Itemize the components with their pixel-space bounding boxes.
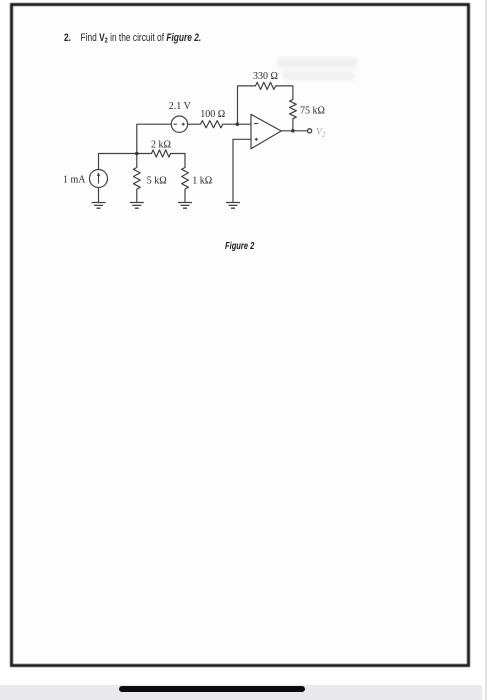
svg-text:2 kΩ: 2 kΩ [151, 140, 171, 151]
svg-text:75 kΩ: 75 kΩ [300, 105, 325, 116]
svg-text:1 mA: 1 mA [63, 175, 86, 186]
svg-text:1 kΩ: 1 kΩ [192, 176, 212, 187]
svg-text:V2: V2 [316, 127, 326, 138]
svg-text:100 Ω: 100 Ω [200, 109, 225, 120]
svg-text:330 Ω: 330 Ω [253, 71, 278, 82]
svg-text:2.1 V: 2.1 V [169, 101, 192, 112]
svg-text:5 kΩ: 5 kΩ [147, 176, 167, 187]
